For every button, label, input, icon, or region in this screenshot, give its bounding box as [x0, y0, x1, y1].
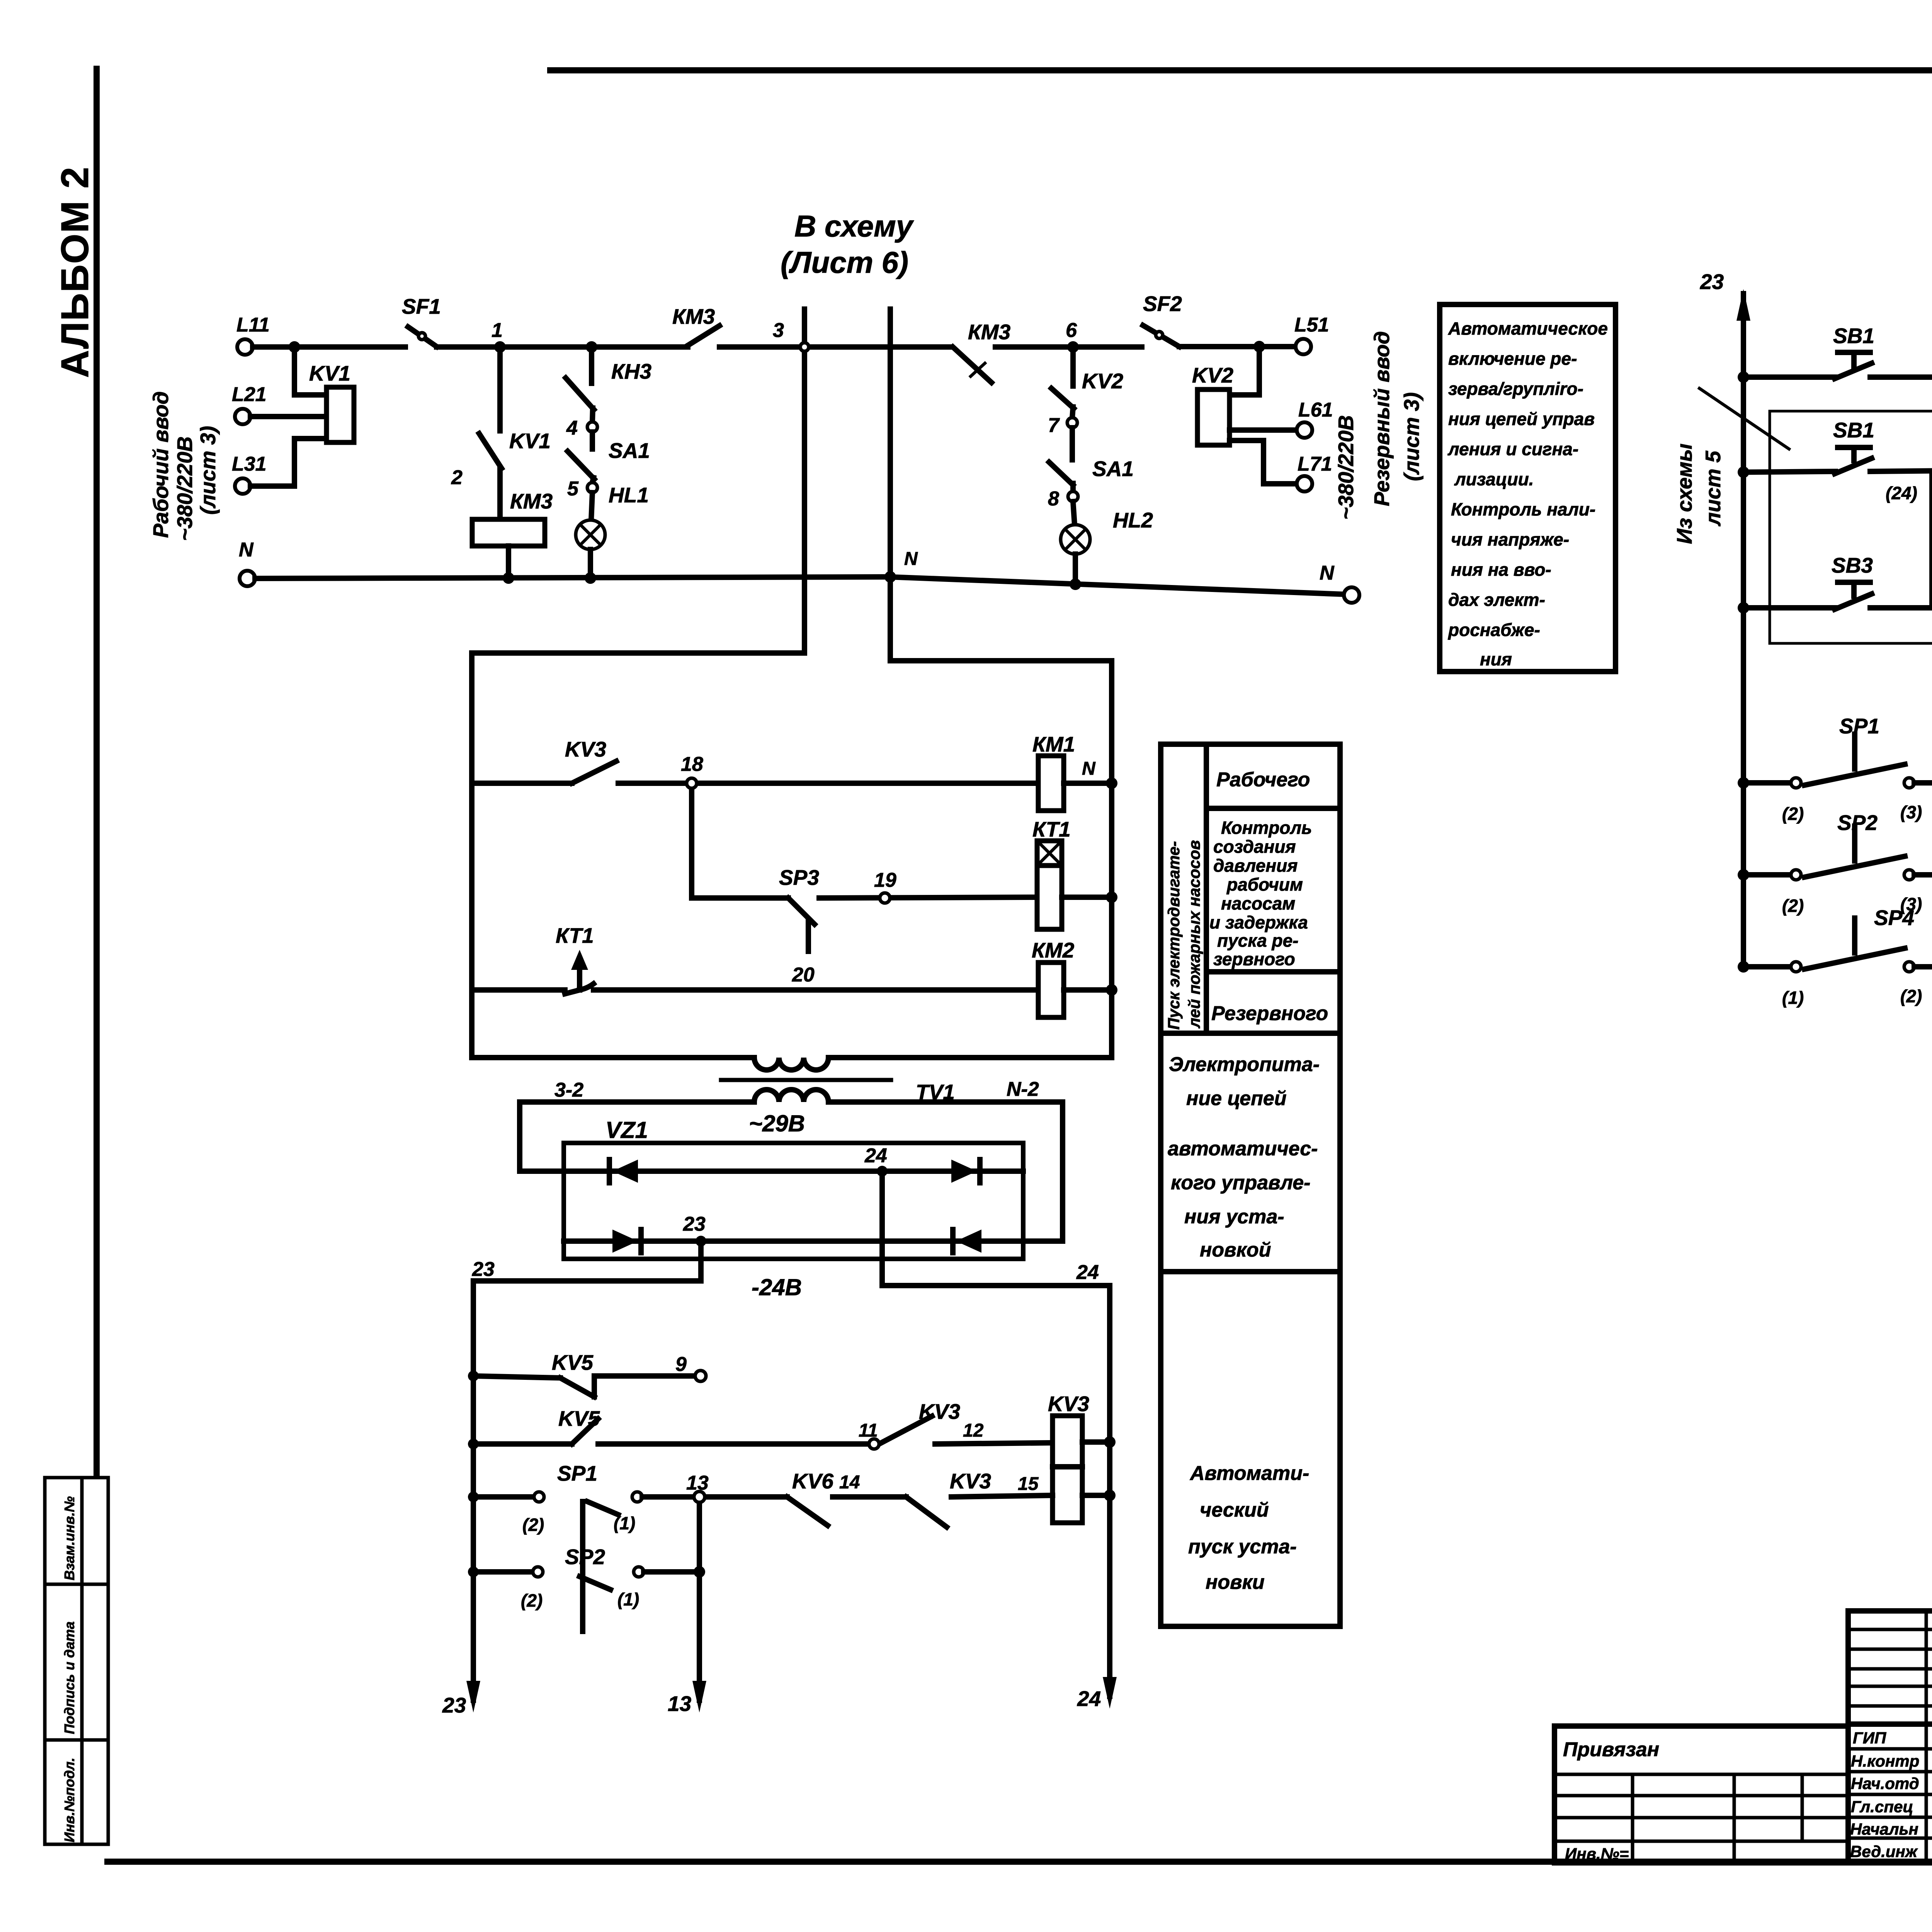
node 13: [686, 1472, 709, 1502]
svg-text:SF1: SF1: [402, 294, 441, 318]
svg-text:(3): (3): [1900, 802, 1922, 822]
wire secondary right lead: [829, 1102, 1063, 1241]
svg-text:Контроль: Контроль: [1221, 818, 1312, 838]
svg-text:и задержка: и задержка: [1209, 912, 1308, 932]
svg-text:5: 5: [567, 478, 579, 500]
terminal L31: [232, 453, 267, 494]
node 8: [1048, 488, 1078, 510]
svg-text:Гл.спец: Гл.спец: [1851, 1798, 1913, 1816]
lamp HL1: [576, 483, 649, 549]
svg-text:Рабочего: Рабочего: [1216, 769, 1310, 791]
wire -24V bus right: [882, 1283, 1110, 1288]
node 7: [1048, 414, 1077, 437]
svg-text:Автоматическое: Автоматическое: [1448, 318, 1608, 338]
wire riser 23 from sheet 5: [1741, 294, 1746, 967]
junction coil bottom rail: [1104, 1490, 1116, 1501]
wire SF2 to L51: [1179, 344, 1296, 349]
wire rail 24: [1107, 1286, 1112, 1696]
contact SP1: [1738, 714, 1922, 824]
contact KM3 nc: [953, 320, 1010, 383]
contact KV1: [479, 429, 551, 468]
frame bottom border: [107, 1859, 1932, 1865]
svg-text:SА1: SА1: [609, 439, 650, 463]
svg-text:КМ3: КМ3: [672, 304, 715, 328]
wire KV2 to L71: [1230, 440, 1297, 484]
wire SA1 blade to node8: [1070, 483, 1076, 492]
junction KM3-N: [503, 572, 514, 584]
svg-text:23: 23: [472, 1258, 495, 1281]
svg-text:ния на вво-: ния на вво-: [1451, 560, 1551, 580]
svg-text:SP2: SP2: [565, 1545, 605, 1569]
svg-text:(2): (2): [1900, 986, 1922, 1006]
wire KV3 coil top to rail 24: [1082, 1439, 1110, 1445]
svg-text:18: 18: [681, 753, 703, 776]
title block name rows: [1848, 1747, 1932, 1751]
node 6: [1066, 319, 1079, 353]
svg-text:ления и сигна-: ления и сигна-: [1447, 439, 1578, 459]
svg-text:ческий: ческий: [1200, 1499, 1269, 1521]
svg-text:Инв.№подл.: Инв.№подл.: [61, 1758, 77, 1842]
terminal L71: [1297, 453, 1332, 492]
svg-text:(24): (24): [1886, 483, 1917, 503]
wire SB2 rung to node 17: [1870, 469, 1932, 471]
svg-text:KV1: KV1: [509, 429, 551, 453]
wire HL2 to N rail: [1073, 554, 1078, 584]
svg-text:KV5: KV5: [558, 1406, 600, 1430]
wire SP1 to node 16: [1914, 780, 1932, 786]
svg-text:КТ1: КТ1: [556, 923, 594, 947]
relay coil KV1: [309, 361, 354, 442]
switch SA1 second: [1049, 457, 1134, 485]
lamp HL2: [1061, 508, 1153, 554]
svg-text:L51: L51: [1294, 314, 1329, 336]
wire node19 to KT1: [819, 897, 1037, 898]
svg-text:Взам.инв.№: Взам.инв.№: [61, 1496, 77, 1580]
wire node13 to KV6 contact: [705, 1494, 787, 1500]
svg-text:КМ2: КМ2: [1032, 938, 1075, 962]
wire node 15 to coil: [951, 1474, 1053, 1497]
svg-text:Контроль нали-: Контроль нали-: [1451, 499, 1595, 519]
svg-text:~29В: ~29В: [749, 1111, 805, 1136]
svg-text:L61: L61: [1298, 399, 1333, 421]
frame left border: [94, 69, 100, 1475]
wire node23 drop: [698, 1241, 704, 1281]
node 1: [492, 319, 506, 353]
svg-text:Вед.инж: Вед.инж: [1850, 1842, 1918, 1861]
wire node1 down to KV1 contact: [497, 347, 503, 431]
junction node 3: [773, 319, 809, 351]
wire node18 branch down: [692, 788, 788, 898]
wire KV2 blade to node7: [1072, 407, 1073, 418]
svg-text:роснабже-: роснабже-: [1447, 620, 1540, 640]
wire KM1 to right rail: [1064, 781, 1112, 786]
title block column lines left part: [1925, 1611, 1928, 1863]
button SB1: [1738, 324, 1874, 383]
svg-text:N: N: [904, 549, 918, 569]
wire N riser to sheet 6: [888, 309, 893, 661]
rotated label Резервный ввод: [1334, 331, 1423, 520]
wire contact to coil KM3: [497, 468, 503, 519]
terminal N left: [239, 539, 255, 586]
svg-text:автоматичес-: автоматичес-: [1168, 1138, 1318, 1160]
transformer TV1 primary winding: [754, 1058, 828, 1070]
svg-text:(лист 3): (лист 3): [196, 426, 220, 515]
svg-text:лист 5: лист 5: [1701, 450, 1725, 527]
svg-text:зерва/групліro-: зерва/групліro-: [1448, 379, 1583, 399]
svg-text:8: 8: [1048, 488, 1059, 510]
svg-text:Пуск электродвигате-: Пуск электродвигате-: [1165, 841, 1183, 1030]
svg-text:KV6: KV6: [792, 1469, 833, 1493]
wire SP2 to node 115: [1914, 872, 1932, 878]
wire bridge top path: [564, 1168, 1023, 1174]
svg-text:КН3: КН3: [611, 359, 651, 383]
wire node8 to HL2: [1073, 502, 1075, 525]
wire inner riser SB3: [1929, 471, 1932, 608]
svg-text:SА1: SА1: [1092, 457, 1134, 481]
transformer TV1 secondary winding: [754, 1090, 828, 1102]
rotated label: Рабочий ввод ~380/220В (лист 3): [149, 391, 220, 541]
wire node6 down to KV2: [1070, 347, 1076, 386]
contact KV3 no: [879, 1400, 960, 1444]
junction HL1-N: [585, 572, 596, 584]
wire bridge bottom path: [564, 1238, 1023, 1244]
svg-text:Резервного: Резервного: [1211, 1002, 1328, 1025]
svg-text:КМ1: КМ1: [1032, 732, 1075, 756]
left attachment table Привязан: [1554, 1726, 1848, 1863]
middle annotation column: [1161, 744, 1340, 1626]
svg-text:ния: ния: [1480, 649, 1512, 669]
enclosure SB2 SB3: [1770, 411, 1932, 643]
svg-text:SP1: SP1: [1839, 714, 1879, 738]
svg-text:(2): (2): [522, 1515, 544, 1535]
svg-text:~380/220В: ~380/220В: [1334, 415, 1358, 520]
junction coil top rail: [1104, 1436, 1116, 1448]
svg-text:Привязан: Привязан: [1563, 1738, 1659, 1761]
svg-text:HL2: HL2: [1113, 508, 1153, 532]
svg-text:4: 4: [566, 417, 578, 439]
wire ladder left rail: [469, 653, 474, 1058]
wire ladder top-left edge: [472, 650, 804, 656]
relay coil KV3 (two sections): [1048, 1392, 1089, 1523]
svg-text:14: 14: [839, 1472, 860, 1493]
svg-text:L21: L21: [232, 383, 267, 406]
svg-text:L31: L31: [232, 453, 267, 475]
svg-text:давления: давления: [1213, 855, 1298, 876]
wire KV3 coil bottom to rail 24: [1082, 1493, 1110, 1498]
svg-text:N: N: [1320, 562, 1335, 584]
svg-text:KV3: KV3: [1048, 1392, 1089, 1416]
junction KT1 rail: [1106, 891, 1117, 903]
junction node KV1 tap: [289, 341, 300, 353]
wire node24 drop: [879, 1171, 885, 1286]
svg-text:N: N: [1082, 759, 1096, 779]
svg-text:HL1: HL1: [609, 483, 649, 507]
node 18: [681, 753, 703, 788]
relay coil KV2: [1192, 363, 1233, 445]
node 24 of bridge: [864, 1145, 888, 1177]
svg-text:Инв.№=: Инв.№=: [1565, 1845, 1629, 1863]
node 11: [859, 1420, 879, 1449]
wire ladder bottom edge / TV1 primary: [472, 1055, 754, 1060]
svg-text:SP2: SP2: [1837, 811, 1878, 835]
svg-text:7: 7: [1048, 414, 1060, 437]
rectifier VZ1 box: [564, 1117, 1023, 1259]
label В схему (Лист 6): [781, 209, 914, 279]
svg-text:N: N: [239, 539, 254, 561]
junction KV2 coil tap: [1253, 341, 1265, 352]
wire KV1 top lead: [294, 347, 327, 395]
svg-text:В схему: В схему: [794, 209, 914, 243]
transformer core: [721, 1078, 891, 1082]
wire node 12 to coil: [935, 1420, 1053, 1444]
wire KV5 to node 11: [598, 1441, 869, 1447]
cell Автоматический пуск установки: [1188, 1462, 1309, 1594]
svg-text:ния цепей управ: ния цепей управ: [1448, 409, 1595, 429]
arrow riser 23 up: [1700, 270, 1750, 321]
terminal L11: [236, 314, 270, 355]
contact KV6 nc: [787, 1469, 833, 1526]
wire -24V bus left: [473, 1278, 701, 1284]
wire KT1 to right rail: [1062, 895, 1112, 900]
svg-text:Из схемы: Из схемы: [1672, 444, 1696, 544]
svg-text:чия напряже-: чия напряже-: [1451, 529, 1569, 549]
contact KM3 no: [672, 304, 719, 345]
wire KV2 to L61: [1230, 427, 1297, 433]
svg-text:SF2: SF2: [1143, 292, 1182, 316]
wire node6 segment: [995, 344, 1142, 350]
node 23 of bridge: [683, 1213, 706, 1247]
svg-text:SP4: SP4: [1874, 906, 1914, 930]
svg-text:(лист 3): (лист 3): [1400, 392, 1423, 481]
wire node4 to SA1: [590, 432, 595, 449]
svg-text:(1): (1): [1782, 988, 1804, 1008]
svg-text:(2): (2): [521, 1590, 543, 1611]
signature rows texts: [1850, 1729, 1932, 1861]
svg-text:SВ1: SВ1: [1833, 324, 1874, 348]
svg-text:(2): (2): [1782, 896, 1804, 916]
node 9 open end: [675, 1353, 706, 1381]
node circles overlay: [687, 343, 1932, 1502]
svg-text:(2): (2): [1782, 804, 1804, 824]
svg-text:20: 20: [792, 964, 815, 986]
svg-text:3-2: 3-2: [554, 1079, 583, 1101]
button SB3: [1738, 553, 1873, 614]
button SB2: [1738, 418, 1917, 503]
contactor coil KM1: [1032, 732, 1096, 811]
wire SA1 blade to node5: [592, 478, 594, 483]
svg-text:23: 23: [442, 1693, 466, 1717]
svg-text:19: 19: [874, 869, 896, 891]
svg-text:23: 23: [683, 1213, 706, 1235]
junction KM2 rail: [1106, 984, 1117, 996]
svg-text:KV2: KV2: [1192, 363, 1233, 387]
svg-text:KV5: KV5: [552, 1350, 594, 1374]
svg-text:ние цепей: ние цепей: [1186, 1087, 1287, 1110]
terminal L51: [1294, 314, 1329, 354]
svg-text:КТ1: КТ1: [1032, 817, 1071, 841]
svg-text:Автомати-: Автомати-: [1189, 1462, 1309, 1485]
contact KT1 delayed: [472, 923, 594, 994]
svg-text:Резервный ввод: Резервный ввод: [1370, 331, 1394, 506]
junction N riser: [884, 549, 918, 583]
wire ladder right rail: [1109, 661, 1114, 1058]
svg-text:Н.контр: Н.контр: [1851, 1752, 1919, 1770]
svg-text:пуска ре-: пуска ре-: [1217, 930, 1299, 951]
wire L21 to KV1: [250, 414, 327, 419]
svg-text:15: 15: [1018, 1474, 1039, 1494]
wire to node 9: [594, 1373, 696, 1379]
svg-text:КМ3: КМ3: [968, 320, 1010, 344]
title block outer: [1848, 1611, 1932, 1863]
contact SP2: [1738, 811, 1922, 916]
wire SF1 to node 1: [437, 344, 592, 350]
wire rail 23: [471, 1281, 476, 1700]
contact KV3 aux: [472, 737, 616, 783]
svg-text:L71: L71: [1298, 453, 1332, 475]
wire KM3 coil to N rail: [506, 546, 511, 578]
junction KM1 rail: [1106, 777, 1117, 789]
svg-text:лизации.: лизации.: [1454, 469, 1534, 489]
contact SP2 lower: [468, 1545, 644, 1611]
svg-text:КМ3: КМ3: [510, 489, 553, 513]
contact KV3 nc: [906, 1469, 991, 1527]
wire riser 13 down: [697, 1502, 702, 1700]
diode bottom-left: [612, 1230, 641, 1253]
node 4: [566, 417, 597, 439]
contact KV5 no2: [468, 1406, 600, 1449]
svg-text:ния уста-: ния уста-: [1184, 1206, 1284, 1228]
annotation box: АВР: [1440, 304, 1616, 672]
svg-text:KV1: KV1: [309, 361, 350, 385]
rotated label Из схемы лист 5: [1672, 388, 1789, 544]
svg-text:24: 24: [864, 1145, 887, 1167]
svg-text:Начальн: Начальн: [1850, 1820, 1918, 1838]
svg-text:~380/220В: ~380/220В: [173, 436, 197, 541]
rotated cell: Пуск электродвигателей пожарных насосов: [1165, 840, 1203, 1030]
contact SP4: [1738, 906, 1922, 1008]
svg-text:9: 9: [675, 1353, 687, 1376]
svg-text:кого управле-: кого управле-: [1171, 1172, 1310, 1194]
svg-text:насосам: насосам: [1221, 893, 1295, 913]
contactor coil KM3: [472, 489, 553, 546]
wire 3 riser to sheet 6: [802, 309, 807, 653]
arrow riser 13 down: [668, 1681, 706, 1716]
wire lamp to N rail: [588, 549, 593, 578]
svg-text:Рабочий ввод: Рабочий ввод: [149, 391, 173, 538]
wire node18 to KM1: [618, 781, 1038, 786]
svg-text:включение ре-: включение ре-: [1448, 349, 1577, 369]
wire node 14: [833, 1472, 906, 1497]
svg-text:6: 6: [1066, 319, 1077, 342]
svg-text:SP1: SP1: [557, 1461, 597, 1485]
diode top-right: [951, 1160, 980, 1183]
svg-text:создания: создания: [1213, 837, 1296, 857]
wire KH3 blade to node4: [592, 408, 593, 422]
svg-text:KV3: KV3: [919, 1400, 960, 1423]
diode bottom-right: [953, 1230, 981, 1253]
svg-text:L11: L11: [236, 314, 270, 336]
title block small rows top-left: [1848, 1628, 1932, 1631]
svg-text:зервного: зервного: [1213, 949, 1295, 969]
wire N rail left part: [255, 577, 1344, 594]
svg-text:23: 23: [1700, 270, 1724, 294]
switch SA1: [568, 439, 650, 479]
frame top border: [550, 67, 1932, 73]
wire SB1 to KV5: [1870, 374, 1932, 380]
svg-text:(1): (1): [614, 1513, 635, 1533]
wire ladder top-right edge: [890, 658, 1112, 663]
wire node7 to SA1 second: [1070, 428, 1075, 460]
svg-text:3: 3: [773, 319, 784, 342]
circuit breaker SF1: [402, 294, 441, 347]
arrow rail 24 down: [1077, 1677, 1117, 1711]
node 19: [874, 869, 896, 903]
contact SP3: [779, 866, 819, 951]
wire secondary left lead: [520, 1102, 754, 1171]
wire rail node1..node3 segments: [592, 344, 688, 350]
circuit breaker SF2: [1143, 292, 1182, 347]
wire L31 to KV1: [250, 439, 327, 486]
svg-text:ГИП: ГИП: [1853, 1729, 1886, 1747]
contact SP1 lower: [468, 1461, 642, 1631]
wire SP4 to node 116: [1914, 964, 1932, 969]
junction HL2-N: [1070, 578, 1081, 590]
arrow rail 23 down: [442, 1681, 480, 1717]
cell Контроль создания давления: [1209, 818, 1312, 969]
node 5: [567, 478, 597, 500]
svg-text:дах элект-: дах элект-: [1448, 590, 1545, 610]
svg-text:рабочим: рабочим: [1226, 874, 1303, 895]
wire KT1 contact to KM2: [594, 987, 1038, 993]
svg-text:12: 12: [963, 1420, 984, 1441]
wire KV2 coil top lead: [1230, 347, 1259, 395]
wire branch down to KH3: [589, 347, 594, 383]
svg-text:13: 13: [668, 1692, 691, 1716]
time relay coil KT1: [1032, 817, 1071, 929]
lower-left margin stamp table: [45, 1478, 108, 1844]
svg-text:SВ3: SВ3: [1832, 553, 1873, 577]
svg-text:АЛЬБОМ 2: АЛЬБОМ 2: [53, 166, 97, 378]
junction node 4 branch: [586, 341, 597, 353]
svg-text:-24В: -24В: [752, 1274, 802, 1300]
svg-text:KV3: KV3: [565, 737, 606, 761]
contactor coil KM2: [1032, 938, 1075, 1017]
svg-text:SP3: SP3: [779, 866, 819, 889]
svg-text:VZ1: VZ1: [605, 1117, 648, 1143]
terminal L21: [232, 383, 267, 424]
svg-text:1: 1: [492, 319, 503, 342]
wire node5 to lamp HL1: [591, 493, 592, 520]
svg-text:SВ1: SВ1: [1833, 418, 1874, 442]
svg-text:Подпись и дата: Подпись и дата: [61, 1621, 77, 1734]
svg-text:лей пожарных насосов: лей пожарных насосов: [1185, 840, 1203, 1029]
svg-text:(Лист 6): (Лист 6): [781, 245, 908, 279]
svg-text:KV3: KV3: [950, 1469, 991, 1493]
wire KM2 to right rail: [1064, 987, 1112, 993]
cell Электропитание цепей: [1168, 1053, 1320, 1261]
svg-text:KV2: KV2: [1082, 369, 1123, 393]
terminal N right: [1320, 562, 1359, 603]
svg-text:новкой: новкой: [1200, 1239, 1271, 1261]
svg-text:N-2: N-2: [1007, 1078, 1039, 1100]
contact KV2: [1051, 369, 1123, 408]
wire SP2 to riser 13: [644, 1569, 699, 1575]
wire SP1 to node 13: [642, 1494, 694, 1500]
svg-text:пуск уста-: пуск уста-: [1188, 1536, 1297, 1558]
contact KV5 no1: [468, 1350, 594, 1397]
terminal L61: [1297, 399, 1333, 438]
contact KH3: [566, 359, 651, 410]
